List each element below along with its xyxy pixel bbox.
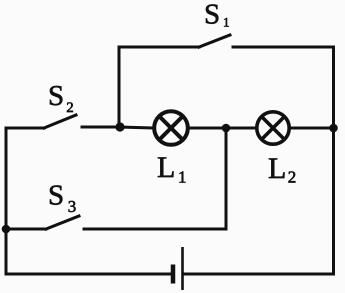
node D junction dot [2,225,11,234]
wire S3 branch vertical from node B [225,128,228,229]
wire top rail right segment [233,46,334,49]
svg-text:S: S [204,0,220,31]
wire vertical drop from top rail to middle rail [118,47,121,127]
wire middle rail from left corner to S2 pivot [6,127,44,130]
node B junction dot [222,124,231,133]
wire node D to S3 pivot [6,228,46,231]
wire bottom left to battery [6,273,171,276]
svg-text:3: 3 [68,197,77,216]
wire battery to bottom right [184,273,334,276]
wire S3 contact segment [84,228,226,231]
wire lamp L1 to node B [190,127,226,130]
lamp L1 [154,111,188,145]
switch S1 blade [199,35,230,47]
wire left vertical [5,128,8,274]
wire node A to lamp L1 [120,127,152,128]
wire node B to lamp L2 [226,127,256,130]
node A junction dot [115,122,124,131]
svg-text:2: 2 [66,100,74,116]
svg-text:S: S [48,80,64,112]
svg-text:S: S [48,180,64,212]
svg-text:L: L [157,151,175,184]
lamp L2 [257,112,289,144]
wire S2 contact to node A [82,126,120,129]
wire top rail left segment [119,46,199,49]
svg-text:L: L [268,152,286,185]
node C junction dot [329,124,338,133]
battery B1 [173,247,183,290]
svg-text:2: 2 [288,168,297,187]
switch S2 blade [44,115,76,128]
svg-text:1: 1 [223,14,230,29]
wire right vertical [332,47,335,274]
wire lamp L2 to node C [291,127,334,130]
svg-text:1: 1 [178,168,187,187]
switch S3 blade [46,216,79,229]
